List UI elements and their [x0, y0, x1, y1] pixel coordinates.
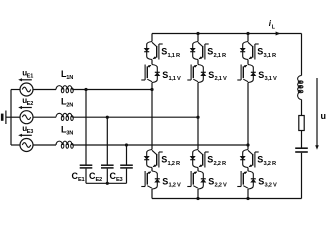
- svg-text:2N: 2N: [66, 103, 73, 109]
- wire column 3 bottom mid link: [247, 168, 249, 172]
- transistor S2,1V (IGBT with antiparallel diode): [187, 65, 206, 83]
- svg-text:S: S: [258, 176, 264, 186]
- inductor L1N: [56, 86, 73, 93]
- svg-text:2,1 V: 2,1 V: [215, 76, 227, 82]
- svg-text:3,2 V: 3,2 V: [265, 183, 277, 189]
- junction dot phase3/CE3: [125, 143, 128, 146]
- junction dot bottom bus col3: [246, 197, 249, 200]
- svg-text:E1: E1: [27, 74, 34, 80]
- svg-text:1,1 R: 1,1 R: [168, 53, 180, 59]
- wire column 1 to phase 1: [151, 83, 153, 90]
- svg-text:u: u: [321, 111, 327, 121]
- svg-text:S: S: [161, 155, 167, 165]
- inductor L3N: [56, 141, 73, 148]
- wire top output bus: [152, 33, 302, 35]
- svg-text:1,1 V: 1,1 V: [169, 76, 181, 82]
- transistor S1,1R (IGBT with antiparallel diode): [144, 42, 163, 60]
- wire CE1 bottom stub: [85, 169, 87, 184]
- wire phase 2: bus to source: [11, 116, 20, 118]
- transistor S2,2V (IGBT with antiparallel diode): [187, 171, 206, 189]
- wire phase 3: bus to source: [11, 144, 20, 146]
- wire bottom output bus: [152, 198, 302, 200]
- arrow uE2 (points left): [21, 107, 32, 109]
- wire column 2 bottom mid link: [197, 168, 199, 172]
- wire column 2 phase to bottom cell: [197, 117, 199, 149]
- wire phase 1: inductor to matrix column 1: [72, 89, 152, 91]
- svg-text:S: S: [208, 70, 214, 80]
- svg-text:E2: E2: [27, 101, 34, 107]
- voltage source uE3: [20, 139, 33, 152]
- wire column 3 to bottom bus: [247, 189, 249, 199]
- wire column 1 phase to bottom cell: [151, 90, 153, 150]
- output capacitor: [295, 148, 308, 152]
- junction dot top bus col2: [196, 32, 199, 35]
- svg-text:S: S: [207, 47, 213, 57]
- arrow iL on top bus: [276, 32, 281, 36]
- wire column 1 mid link: [151, 60, 153, 65]
- svg-text:2,2 R: 2,2 R: [214, 161, 226, 167]
- wire column 3 mid link: [247, 60, 249, 65]
- junction dot star point: [106, 182, 109, 185]
- transistor S3,1R (IGBT with antiparallel diode): [240, 42, 259, 60]
- ground: [5, 111, 7, 125]
- wire column 1 to bottom bus: [151, 189, 153, 199]
- transistor S1,1V (IGBT with antiparallel diode): [141, 65, 160, 83]
- svg-text:2,2 V: 2,2 V: [215, 183, 227, 189]
- svg-text:3N: 3N: [66, 130, 73, 136]
- wire capacitor drop phase 3: [126, 145, 128, 165]
- svg-text:3,2 R: 3,2 R: [264, 161, 276, 167]
- svg-text:2,1 R: 2,1 R: [214, 53, 226, 59]
- voltage source uE2: [20, 111, 33, 124]
- inductor L2N: [56, 113, 73, 120]
- wire capacitor star-point bus: [86, 182, 127, 184]
- capacitor CE1: [80, 165, 93, 168]
- transistor S1,2R (IGBT with antiparallel diode): [144, 150, 163, 168]
- junction dot phase3 col3: [246, 143, 249, 146]
- wire output branch resistor to capacitor: [301, 131, 303, 148]
- svg-text:S: S: [258, 70, 264, 80]
- wire capacitor drop phase 1: [85, 90, 87, 165]
- svg-text:S: S: [162, 176, 168, 186]
- output inductor: [298, 76, 303, 100]
- arrow uE3 (points left): [21, 134, 32, 136]
- svg-text:E2: E2: [96, 177, 103, 183]
- capacitor CE2: [101, 165, 114, 168]
- transistor S1,2V (IGBT with antiparallel diode): [141, 171, 160, 189]
- wire CE3 bottom stub: [126, 169, 128, 184]
- svg-text:S: S: [257, 47, 263, 57]
- transistor S3,1V (IGBT with antiparallel diode): [237, 65, 256, 83]
- svg-text:1,2 R: 1,2 R: [168, 161, 180, 167]
- transistor S3,2R (IGBT with antiparallel diode): [240, 150, 259, 168]
- wire phase 2: inductor to matrix column 2: [72, 116, 198, 118]
- wire output branch top: [301, 34, 303, 76]
- wire capacitor drop phase 2: [106, 117, 108, 165]
- svg-text:1N: 1N: [66, 75, 73, 81]
- transistor S3,2V (IGBT with antiparallel diode): [237, 171, 256, 189]
- wire column 3 top link: [247, 34, 249, 42]
- wire neutral bus (left vertical): [10, 90, 12, 146]
- wire phase 1: bus to source: [11, 89, 20, 91]
- junction dot bottom bus col2: [196, 197, 199, 200]
- svg-text:S: S: [207, 155, 213, 165]
- wire column 2 to phase 2: [197, 83, 199, 118]
- wire CE2 bottom stub: [106, 169, 108, 184]
- wire output branch coil to resistor: [301, 100, 303, 116]
- transistor S2,2R (IGBT with antiparallel diode): [190, 150, 209, 168]
- wire column 2 mid link: [197, 60, 199, 65]
- wire column 3 phase to bottom cell: [247, 145, 249, 150]
- wire column 2 top link: [197, 34, 199, 42]
- svg-text:E1: E1: [78, 177, 85, 183]
- svg-text:3,1 R: 3,1 R: [264, 53, 276, 59]
- svg-text:E3: E3: [27, 129, 34, 135]
- output resistor: [299, 116, 304, 131]
- junction dot phase1/CE1: [84, 88, 87, 91]
- svg-text:S: S: [161, 47, 167, 57]
- wire ground stub: [6, 116, 11, 118]
- wire column 3 to phase 3: [247, 83, 249, 146]
- junction dot phase1 col1: [150, 88, 153, 91]
- svg-text:S: S: [208, 176, 214, 186]
- wire phase 3: inductor to matrix column 3: [72, 144, 248, 146]
- capacitor CE3: [120, 165, 133, 168]
- arrow uE1 (points left): [21, 79, 32, 81]
- transistor S2,1R (IGBT with antiparallel diode): [190, 42, 209, 60]
- wire phase 2: source to inductor: [33, 116, 56, 118]
- wire phase 1: source to inductor: [33, 89, 56, 91]
- voltage source uE1: [20, 83, 33, 96]
- wire column 1 bottom mid link: [151, 168, 153, 172]
- wire column 2 to bottom bus: [197, 189, 199, 199]
- wire output branch capacitor to bottom bus: [301, 153, 303, 199]
- svg-text:S: S: [257, 155, 263, 165]
- junction dot top bus col3: [246, 32, 249, 35]
- svg-text:3,1 V: 3,1 V: [265, 76, 277, 82]
- svg-text:1,2 V: 1,2 V: [169, 183, 181, 189]
- svg-text:S: S: [162, 70, 168, 80]
- junction dot phase2 col2: [196, 116, 199, 119]
- svg-text:E3: E3: [116, 177, 123, 183]
- arrow u (output voltage, points down): [316, 78, 318, 146]
- wire phase 3: source to inductor: [33, 144, 56, 146]
- junction dot phase2/CE2: [106, 116, 109, 119]
- wire column 1 top link: [151, 34, 153, 42]
